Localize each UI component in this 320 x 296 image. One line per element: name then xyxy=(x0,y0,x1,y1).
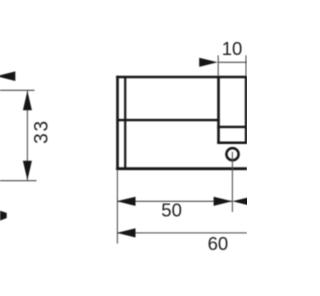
dim 10 arrowhead xyxy=(199,58,217,67)
rear 10mm section right edge xyxy=(245,77,247,144)
dim 33 arrowhead up xyxy=(23,91,32,110)
dim 10 extension line left xyxy=(217,55,219,76)
dim 60 arrowhead left xyxy=(117,228,136,237)
cylinder body bottom edge xyxy=(116,167,247,170)
cylinder face-plate line xyxy=(124,77,126,169)
dim 33 dimension line xyxy=(26,90,28,180)
dim 50 arrowhead right xyxy=(214,197,233,206)
cylinder body left edge xyxy=(116,76,119,170)
chained dimension arrowhead right of 50 xyxy=(232,197,251,206)
svg-text:10: 10 xyxy=(222,38,243,59)
dim 10 dimension line xyxy=(218,61,247,63)
rear 10mm section left edge xyxy=(217,77,220,144)
screw hole centre line xyxy=(231,152,233,212)
cylinder mid parting line xyxy=(117,119,220,121)
clipped arrowhead fragment bottom-left xyxy=(0,211,7,221)
left extension line below body xyxy=(116,170,118,243)
dim 33 extension line top xyxy=(0,89,35,91)
dim 60 dimension line xyxy=(117,232,247,234)
rear section divider line xyxy=(217,126,247,128)
fixing screw hole xyxy=(226,148,238,160)
svg-text:60: 60 xyxy=(208,233,229,254)
dim 10 extension line right xyxy=(245,55,247,76)
svg-text:50: 50 xyxy=(161,200,182,221)
dim 50 arrowhead left xyxy=(117,197,136,206)
clipped arrowhead at left margin xyxy=(0,71,15,81)
dim 33 extension line bottom xyxy=(0,180,37,182)
svg-text:33: 33 xyxy=(31,119,52,144)
dim 50 dimension line xyxy=(117,200,232,202)
dim 33 arrowhead down xyxy=(23,161,32,180)
rear section bottom edge xyxy=(217,142,247,145)
cylinder body top edge xyxy=(116,76,247,79)
